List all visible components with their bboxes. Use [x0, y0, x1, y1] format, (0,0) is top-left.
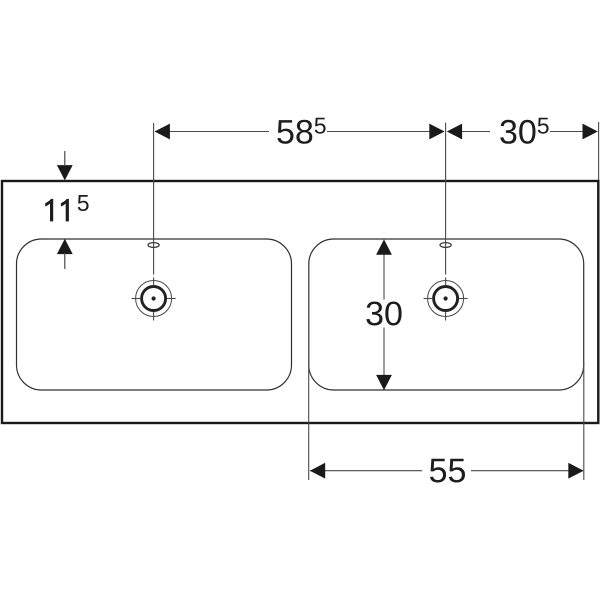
- countertop outline: [2, 181, 598, 423]
- dimension 11.5 label digit 1 (custom helvetica-style one): [45, 199, 53, 222]
- right basin: [309, 239, 584, 390]
- left drain outer circle: [136, 281, 172, 317]
- left basin: [17, 239, 292, 390]
- dimension 30 bottom arrowhead: [376, 375, 392, 390]
- dimension 11.5 label digit 1 (second): [61, 199, 69, 222]
- dimension 58.5 label: [277, 120, 312, 144]
- dimension 30 vertical line segments: [383, 253, 385, 376]
- dimension 30.5 left arrowhead: [447, 124, 462, 140]
- extension line 55 right: [583, 362, 585, 481]
- extension line countertop right edge: [598, 122, 600, 180]
- left drain center dot: [152, 296, 156, 300]
- dimension 30 label: [366, 302, 401, 326]
- right drain center dot: [444, 296, 448, 300]
- dimension 55 label: [430, 459, 465, 483]
- right basin overflow slot: [440, 243, 451, 248]
- dimension 30.5 line segments: [461, 131, 583, 133]
- dimension 30.5 right arrowhead: [583, 124, 598, 140]
- dimension 11.5 lower arrow tail: [64, 253, 66, 269]
- dimension 11.5 label superscript 5: [78, 195, 89, 211]
- dimension 30 top arrowhead: [376, 239, 392, 254]
- right drain crosshair ticks: [424, 278, 468, 321]
- extension line 55 left: [308, 362, 310, 481]
- dimension 55 line segments: [310, 470, 583, 472]
- dimension 11.5 upper arrow tail: [64, 151, 66, 166]
- left drain crosshair ticks: [132, 278, 176, 321]
- right drain outer circle: [428, 281, 464, 317]
- dimension 55 right arrowhead: [568, 463, 583, 479]
- dimension 11.5 lower arrow (points up at basin edge): [57, 239, 73, 254]
- dimension 58.5 line segments: [155, 131, 444, 133]
- right drain ring: [434, 287, 458, 311]
- dimension 58.5 left arrowhead: [155, 124, 170, 140]
- left drain ring: [142, 287, 166, 311]
- dimension 30.5 label: [500, 120, 535, 144]
- left basin overflow slot: [148, 243, 159, 248]
- dimension 58.5 right arrowhead: [429, 124, 444, 140]
- extension line right drain center: [445, 123, 447, 275]
- dimension 11.5 upper arrow (points down at countertop edge): [57, 165, 73, 180]
- extension line left drain center: [153, 123, 155, 275]
- dimension 55 left arrowhead: [310, 463, 325, 479]
